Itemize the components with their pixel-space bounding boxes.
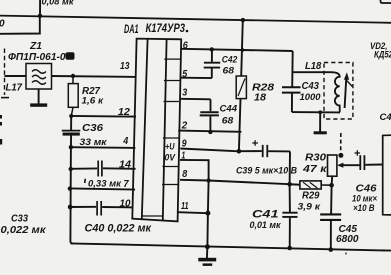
capacitor C46 [355,150,383,170]
wire DA1 pin 7 [70,188,135,189]
resistor R29 [290,181,332,189]
node rail crossing pin 6 [241,48,245,52]
svg-text:18: 18 [254,93,266,104]
bottom ground rail [71,243,391,250]
apostrophe mark before 0,33 [84,179,87,183]
svg-text:0: 0 [0,19,5,30]
wire pin8 node down to pin 11 [207,181,210,214]
node pin 10 junction [68,205,73,210]
node C45 bottom rail [329,247,334,252]
svg-text:C47: C47 [380,112,391,123]
capacitor C42 [204,49,221,78]
wire tank top to L18 [292,71,331,73]
svg-text:0,33 мк: 0,33 мк [88,179,122,190]
wire DA1 pin 12 [71,115,136,118]
svg-text:68: 68 [223,66,235,77]
node pin1/pin8 [206,178,210,182]
svg-text:К174УР3: К174УР3 [146,23,186,35]
wire DA1 pin 2 to R28 rail [178,131,241,132]
wire pin6 corner down (tank left, upper) [291,51,294,87]
svg-text:10: 10 [120,197,131,209]
node C36 top junction [69,114,73,118]
svg-text:0,08 мк: 0,08 мк [42,0,75,7]
box fragment top right corner [381,0,391,3]
wire DA1 pin 11 [178,212,208,213]
node pin8/C41 [287,182,292,187]
svg-text:L18: L18 [305,60,321,72]
svg-text:R30: R30 [305,152,326,163]
inductor L18 [331,72,340,112]
node tank bottom [318,110,322,114]
wire node down to C45 [330,185,333,214]
node R29/R30 [329,183,334,188]
ground tank [314,112,327,134]
capacitor C 0,08 мк lead (off-page top) [39,0,41,16]
svg-text:2: 2 [181,120,188,132]
node C44 bottom [208,130,212,134]
node pin 11 [205,211,210,216]
capacitor C41 [282,213,297,248]
wire DA1 pin 1 [180,160,209,181]
svg-text:КД52: КД52 [374,50,391,61]
wire DA1 pin 5 [181,77,212,79]
node C42 top [210,47,214,51]
speck below rail right [345,252,347,254]
svg-text:C40 0,022 мк: C40 0,022 мк [85,222,153,234]
wire left bus [70,147,73,243]
specks at left edge [0,115,2,119]
svg-text:C43: C43 [302,81,320,92]
wire R28 supply rail lower [239,99,241,152]
svg-text:C41: C41 [252,208,279,220]
svg-text:6: 6 [183,40,188,52]
node dot above R30 [338,153,343,158]
capacitor C45 [320,214,341,249]
wire top supply rail [0,16,391,23]
wire R28 supply rail upper [241,20,243,76]
svg-text:47 к: 47 к [302,164,328,175]
wire DA1 pin 3 [181,98,211,101]
resistor R28 [236,76,246,99]
wire off-page connector pin 0 [0,16,40,34]
node bottom rail / ground [205,244,210,249]
svg-text:14: 14 [119,158,131,170]
ground Z1 bottom [38,89,40,104]
svg-text:C39 5 мк×10 В: C39 5 мк×10 В [236,166,297,177]
shield box L17 bottom corner [1,97,9,99]
wire Z1 to DA1 pin 13 [52,75,137,78]
svg-text:C42: C42 [222,54,238,65]
wire DA1 pin 4 [71,146,135,149]
wire tank bottom [292,111,340,113]
node R27 top junction [71,74,75,78]
wire DA1 pin 6 to tank top [181,49,293,51]
svg-text:C33: C33 [11,214,28,225]
piezo filter Z1 [26,64,52,90]
capacitor C44 [200,99,219,132]
svg-text:11: 11 [181,200,189,212]
wire R30 bottom to R29 node [331,176,334,185]
svg-text:1,6 к: 1,6 к [82,96,105,107]
node pin 14 junction [69,167,73,171]
ground main [198,247,216,266]
capacitor C40 on pin 10 [70,201,133,216]
resistor R27 [68,76,78,116]
wiper arrow R30 / wire to C46 [337,163,360,168]
svg-text:1000: 1000 [300,92,322,103]
svg-text:0,022 мк: 0,022 мк [1,224,47,236]
node pin 4 junction [69,145,73,149]
node junction top rail / cap lead [38,14,42,18]
node pin9/C39 junction [237,149,242,154]
svg-text:13: 13 [120,60,130,72]
svg-text:3,9 к: 3,9 к [298,201,322,212]
svg-text:6800: 6800 [336,234,359,245]
node pin 7 junction [68,186,72,190]
svg-text:R29: R29 [302,191,320,202]
capacitor C36 [62,116,81,147]
node C41 bottom rail [287,246,292,251]
wire DA1 pin 8 [180,180,300,185]
period after К174УР3 [186,30,189,33]
svg-text:C44: C44 [220,103,238,114]
wire L17 to Z1 [5,75,27,77]
node rail top junction [241,18,245,22]
svg-text:DA1: DA1 [124,24,139,36]
svg-text:L17: L17 [6,82,24,94]
svg-text:5: 5 [182,68,187,80]
svg-text:4: 4 [122,135,128,147]
shield box L17 (cut off at left edge) [4,49,6,96]
wire DA1 pin 9 [180,149,239,152]
svg-text:×10 В: ×10 В [353,203,375,214]
adjustment dashed line R30 [340,133,342,151]
svg-text:1: 1 [182,150,186,162]
next stage box (cut off at right) [383,135,391,215]
svg-text:68: 68 [222,115,234,126]
core adjust arrow L18 [344,72,352,108]
capacitor 0,33 мк on pin 14 [71,161,136,177]
wire C39 node down to C41 [289,151,291,212]
svg-text:3: 3 [182,87,187,99]
svg-text:C36: C36 [82,122,103,134]
svg-text:0,01 мк: 0,01 мк [250,220,282,231]
svg-text:Z1: Z1 [29,40,42,52]
shield dashed box L18 [324,63,353,120]
capacitor C43 [282,87,301,112]
svg-text:ФП1П-061-0: ФП1П-061-0 [8,52,66,63]
resistor R30 [328,155,337,176]
capacitor C39 [239,140,290,157]
svg-text:33 мк: 33 мк [80,137,108,148]
svg-text:9: 9 [182,138,187,150]
svg-text:12: 12 [118,106,130,118]
blob over type suffix [66,52,75,60]
svg-text:0V: 0V [165,152,176,163]
svg-text:+U: +U [165,142,175,153]
wire node to bottom rail [206,213,209,247]
svg-text:8: 8 [182,168,187,180]
IC DA1 К174УР3 body [132,39,181,222]
